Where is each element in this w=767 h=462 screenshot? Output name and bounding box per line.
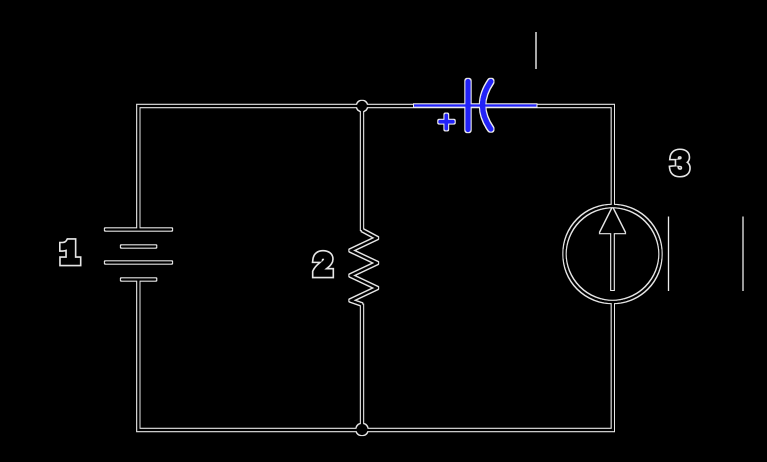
current source I3 arrow shaft	[611, 231, 614, 290]
label 2 (resistor)	[313, 248, 332, 285]
svg-text:1: 1	[60, 236, 79, 273]
capacitor lead wire (blue)	[414, 104, 537, 107]
battery V1 short plate	[122, 245, 155, 247]
wire top-right run: top node to current source top	[362, 106, 613, 206]
current source I3 arrow head	[602, 211, 624, 233]
current source I3 circle	[565, 206, 661, 302]
svg-text:2: 2	[313, 248, 332, 285]
battery V1 long plate (middle)	[106, 261, 171, 263]
capacitor left plate (straight bar)	[465, 82, 470, 130]
resistor R2 zigzag	[351, 230, 378, 305]
cursor mark above capacitor	[535, 32, 537, 69]
node junction dot (bottom)	[356, 424, 367, 435]
mark line right of current source (left)	[668, 217, 670, 292]
wire top-left run: top node to battery top	[138, 106, 362, 231]
wire middle rail lower: resistor to bottom node	[361, 305, 363, 431]
capacitor C (blue, polarized)	[414, 82, 537, 130]
capacitor right plate (curved)	[483, 82, 491, 130]
battery V1 short plate (bottom)	[122, 278, 155, 280]
svg-text:3: 3	[671, 145, 689, 182]
wire middle rail upper: top node to resistor	[361, 106, 363, 230]
mark line right of current source (right)	[742, 217, 744, 292]
wire bottom-left run: battery bottom to bottom node	[138, 279, 362, 431]
node junction dot (top)	[357, 101, 367, 111]
label 3 (current source)	[671, 145, 689, 182]
wire bottom-right run: current source bottom to bottom node	[362, 302, 613, 430]
capacitor polarity plus sign	[440, 115, 453, 128]
battery V1 long plate (top)	[106, 228, 171, 230]
label 1 (battery)	[60, 236, 79, 273]
